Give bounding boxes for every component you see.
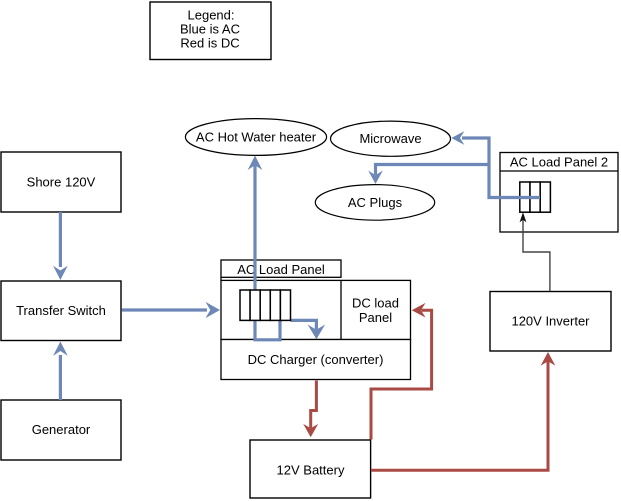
- wire branch to AC plugs (blue, down): [368, 165, 489, 185]
- wire generator to transfer switch (blue, up): [53, 342, 68, 401]
- AC hot water heater ellipse: [185, 119, 326, 156]
- svg-text:Blue is AC: Blue is AC: [180, 21, 240, 36]
- wire AC load panel to AC hot water heater (blue, up) and U-loop to DC charger arrow: [255, 166, 316, 340]
- svg-text:Microwave: Microwave: [359, 131, 421, 146]
- svg-text:Red is DC: Red is DC: [180, 36, 239, 51]
- arrowhead into AC hot water heater: [248, 156, 263, 171]
- svg-text:120V Inverter: 120V Inverter: [511, 314, 590, 329]
- svg-text:DC load: DC load: [352, 296, 399, 311]
- transfer switch box: [1, 281, 121, 341]
- AC load panel 2 box: [500, 153, 618, 233]
- svg-text:12V Battery: 12V Battery: [277, 463, 345, 478]
- legend box: [150, 2, 271, 60]
- wire 12V battery to DC load panel (red, left): [371, 303, 432, 440]
- shore power box Shore 120V: [1, 152, 121, 212]
- wire shore power to transfer switch (blue, down): [53, 212, 68, 280]
- 12V battery box: [250, 440, 371, 498]
- svg-text:Panel: Panel: [359, 310, 392, 325]
- DC charger box DC Charger (converter): [221, 340, 411, 380]
- AC plugs ellipse: [315, 185, 434, 221]
- svg-text:DC Charger (converter): DC Charger (converter): [248, 352, 384, 367]
- svg-text:Legend:: Legend:: [188, 8, 235, 23]
- svg-text:AC Load Panel 2: AC Load Panel 2: [510, 155, 608, 170]
- arrowhead into DC charger: [308, 325, 326, 340]
- microwave ellipse: [331, 121, 451, 156]
- svg-text:Generator: Generator: [32, 422, 91, 437]
- generator box: [1, 400, 121, 460]
- AC load panel header box: [221, 260, 341, 277]
- svg-text:AC Load Panel: AC Load Panel: [237, 262, 325, 277]
- DC load panel label: [352, 296, 399, 326]
- DC load panel divider: [340, 280, 342, 339]
- AC load panel main box: [221, 280, 411, 339]
- svg-text:AC Plugs: AC Plugs: [348, 195, 403, 210]
- wire transfer switch to AC load panel (blue, right): [122, 302, 221, 318]
- wire AC load panel 2 to microwave (blue, left): [451, 131, 540, 197]
- wire DC charger to 12V battery (red, down): [303, 381, 318, 438]
- wire 12V battery to 120V inverter (red, up): [371, 352, 555, 470]
- breaker bank in AC load panel 2 (3 cells): [520, 182, 551, 212]
- svg-text:Shore 120V: Shore 120V: [27, 175, 96, 190]
- wire 120V inverter to AC load panel 2 breaker (black, up): [520, 212, 550, 291]
- svg-text:AC Hot Water heater: AC Hot Water heater: [196, 130, 317, 145]
- wire bridge at panel left edge: [220, 277, 222, 281]
- breaker bank in AC load panel (5 cells): [240, 290, 291, 320]
- svg-text:Transfer Switch: Transfer Switch: [16, 303, 106, 318]
- 120V inverter box: [490, 292, 611, 352]
